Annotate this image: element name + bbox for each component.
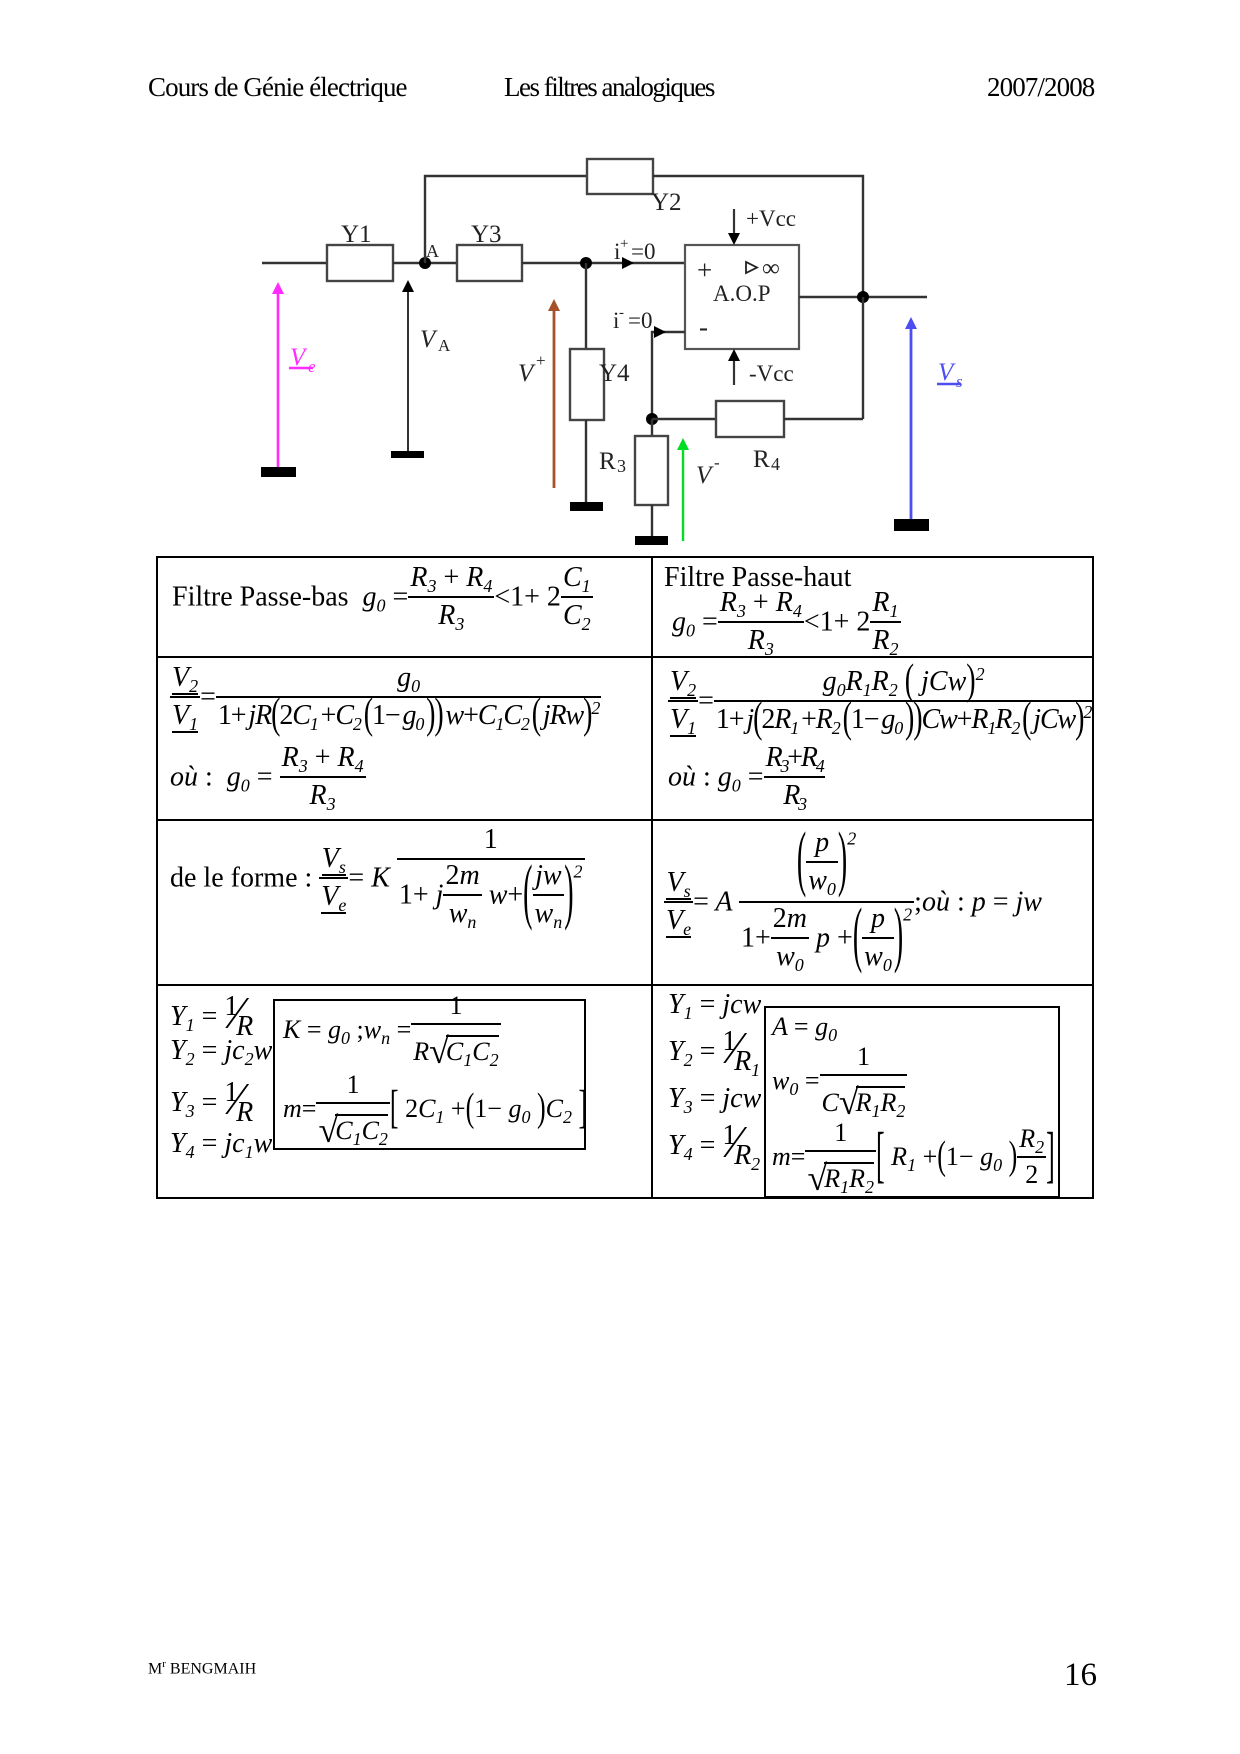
svg-text:V: V bbox=[938, 359, 956, 386]
svg-text:4: 4 bbox=[771, 454, 780, 474]
svg-text:-: - bbox=[714, 453, 720, 472]
admittance Y2 bbox=[587, 159, 682, 216]
wire Y2 right to output branch bbox=[653, 176, 863, 297]
svg-text:+: + bbox=[536, 351, 546, 370]
header bbox=[148, 72, 407, 103]
row4 left box bbox=[273, 999, 586, 1150]
svg-text:Y4: Y4 bbox=[599, 360, 630, 387]
wire feedback from node A up to Y2 bbox=[425, 176, 587, 263]
footer bbox=[148, 1658, 256, 1678]
wire Y1 to node A bbox=[393, 262, 458, 264]
svg-text:V: V bbox=[518, 360, 536, 387]
voltage arrow VA bbox=[402, 280, 451, 451]
svg-text:s: s bbox=[956, 372, 963, 391]
admittance Y4 bbox=[570, 349, 630, 420]
resistor R4 bbox=[716, 401, 784, 474]
svg-text:A.O.P: A.O.P bbox=[713, 281, 771, 306]
node junction Y4 top bbox=[580, 257, 592, 269]
svg-text:V: V bbox=[696, 462, 714, 489]
admittance Y3 bbox=[457, 221, 522, 281]
supply +Vcc bbox=[728, 206, 796, 245]
ground VA bbox=[391, 451, 424, 458]
voltage arrow V+ bbox=[518, 299, 560, 488]
svg-text:V: V bbox=[420, 326, 438, 353]
svg-text:∞: ∞ bbox=[762, 255, 780, 282]
ground Ve bbox=[261, 467, 296, 477]
svg-text:+: + bbox=[697, 255, 712, 285]
row1 left bbox=[172, 560, 593, 638]
ground Y4 bbox=[570, 502, 603, 511]
row4 right list bbox=[668, 989, 761, 1021]
svg-text:+Vcc: +Vcc bbox=[746, 206, 796, 231]
svg-text:Y1: Y1 bbox=[341, 221, 372, 248]
svg-text:-: - bbox=[619, 305, 624, 321]
resistor R3 bbox=[599, 436, 668, 505]
output arrow Vs bbox=[905, 317, 963, 519]
wire R3 to ground bbox=[651, 505, 653, 536]
svg-text:A: A bbox=[426, 241, 439, 261]
svg-text:Y2: Y2 bbox=[651, 189, 682, 216]
wire junction down to R3 bbox=[651, 419, 653, 436]
svg-text:=0: =0 bbox=[631, 239, 655, 264]
ground Vs bbox=[894, 519, 929, 531]
wire node to Y4 bbox=[585, 263, 587, 349]
svg-text:A: A bbox=[438, 336, 451, 355]
table frame bbox=[156, 556, 1094, 1199]
node output junction bbox=[857, 291, 869, 303]
svg-text:R: R bbox=[599, 448, 616, 475]
row2 right bbox=[668, 668, 1093, 738]
current label i+ = 0 bbox=[614, 236, 655, 264]
node A bbox=[419, 241, 439, 269]
wire op-amp output bbox=[799, 296, 927, 298]
wire junction to R4 bbox=[652, 418, 716, 420]
svg-text:+: + bbox=[620, 236, 628, 252]
svg-text:=0: =0 bbox=[628, 308, 652, 333]
svg-text:-Vcc: -Vcc bbox=[749, 361, 794, 386]
wire R4 to output branch bbox=[784, 297, 863, 419]
row2 left bbox=[170, 664, 601, 734]
row1 right bbox=[664, 562, 851, 594]
node minus/R3/R4 junction bbox=[646, 413, 658, 425]
row3 left bbox=[170, 826, 585, 934]
wire Y3 to op-amp plus input bbox=[522, 257, 685, 269]
svg-text:-: - bbox=[699, 312, 708, 342]
row3 right bbox=[664, 826, 1042, 982]
ground R3 bbox=[635, 536, 668, 545]
wire op-amp minus input bbox=[652, 326, 685, 419]
svg-text:e: e bbox=[308, 357, 316, 376]
wire Y4 to ground bbox=[585, 420, 587, 502]
svg-text:R: R bbox=[753, 446, 770, 473]
wire input bbox=[262, 262, 327, 264]
op-amp U1 A.O.P bbox=[685, 245, 799, 349]
source arrow Ve bbox=[272, 282, 316, 467]
voltage arrow V- bbox=[677, 438, 720, 541]
current label i- = 0 bbox=[613, 305, 652, 333]
row4 right box bbox=[764, 1006, 1060, 1198]
row4 left list bbox=[170, 983, 253, 1036]
supply -Vcc bbox=[728, 349, 794, 386]
admittance Y1 bbox=[327, 221, 393, 281]
svg-text:Y3: Y3 bbox=[471, 221, 502, 248]
svg-text:3: 3 bbox=[617, 456, 626, 476]
